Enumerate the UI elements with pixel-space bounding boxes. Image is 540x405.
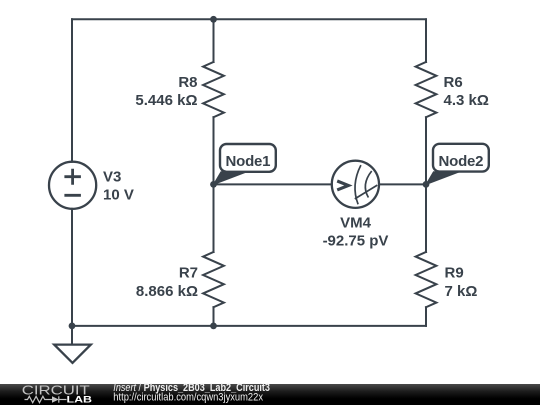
label R8 value: [135, 74, 197, 109]
label R6 value: [444, 74, 489, 109]
wire middle vertical node1 to R7: [213, 184, 215, 252]
resistor R7: [203, 252, 224, 307]
label VM4 value: [323, 215, 389, 250]
svg-text:R9: R9: [445, 264, 464, 281]
CircuitLab logo wordmark: [22, 383, 92, 405]
svg-text:LAB: LAB: [67, 394, 93, 405]
voltmeter VM4: [332, 161, 379, 208]
svg-text:5.446 kΩ: 5.446 kΩ: [135, 92, 197, 109]
node label Node1: [214, 144, 276, 185]
label R9 value: [445, 264, 478, 299]
svg-text:R7: R7: [179, 264, 198, 281]
resistor R6: [416, 62, 437, 117]
svg-text:8.866 kΩ: 8.866 kΩ: [136, 283, 198, 300]
wire middle vertical top lead: [213, 19, 215, 62]
wire bottom horizontal: [72, 325, 426, 327]
ground: [54, 345, 91, 363]
node dot ground junction: [69, 323, 76, 330]
svg-text:Node2: Node2: [438, 153, 483, 170]
wire right vertical between R6 and node2: [425, 117, 427, 184]
svg-text:7 kΩ: 7 kΩ: [445, 283, 478, 300]
label R7 value: [136, 264, 198, 299]
svg-text:VM4: VM4: [340, 215, 372, 232]
wire right vertical bottom lead: [425, 307, 427, 326]
resistor R9: [416, 252, 437, 307]
label V3 value: [103, 169, 134, 204]
wire voltmeter to node2: [379, 183, 426, 185]
node label Node2: [426, 144, 489, 185]
node dot bottom middle junction: [210, 323, 217, 330]
footer bar: [0, 384, 540, 405]
svg-text:10 V: 10 V: [103, 187, 134, 204]
svg-text:http://circuitlab.com/cqwn3jyx: http://circuitlab.com/cqwn3jyxum22x: [113, 392, 263, 404]
wire right vertical node2 to R9: [425, 184, 427, 252]
wire right vertical top lead: [425, 19, 427, 62]
svg-text:Node1: Node1: [225, 153, 270, 170]
resistor R8: [203, 62, 224, 117]
svg-text:-92.75 pV: -92.75 pV: [323, 232, 389, 249]
logo mini resistor and diode: [25, 396, 67, 402]
wire node1 to voltmeter: [214, 183, 332, 185]
wire top horizontal: [72, 18, 426, 20]
voltage source V3: [49, 162, 96, 209]
wire ground stem: [71, 326, 73, 345]
svg-text:V3: V3: [103, 169, 121, 186]
wire middle vertical between R8 and node1: [213, 117, 215, 184]
node dot top middle junction: [210, 16, 217, 23]
node B (Node2 junction): [423, 181, 430, 188]
svg-text:R8: R8: [178, 74, 197, 91]
svg-text:R6: R6: [444, 74, 463, 91]
wire left vertical (V3 to ground node): [71, 209, 73, 326]
wire middle vertical bottom lead: [213, 307, 215, 326]
wire left vertical (top to V3): [71, 19, 73, 162]
svg-text:4.3 kΩ: 4.3 kΩ: [444, 92, 489, 109]
node A (Node1 junction): [210, 181, 217, 188]
